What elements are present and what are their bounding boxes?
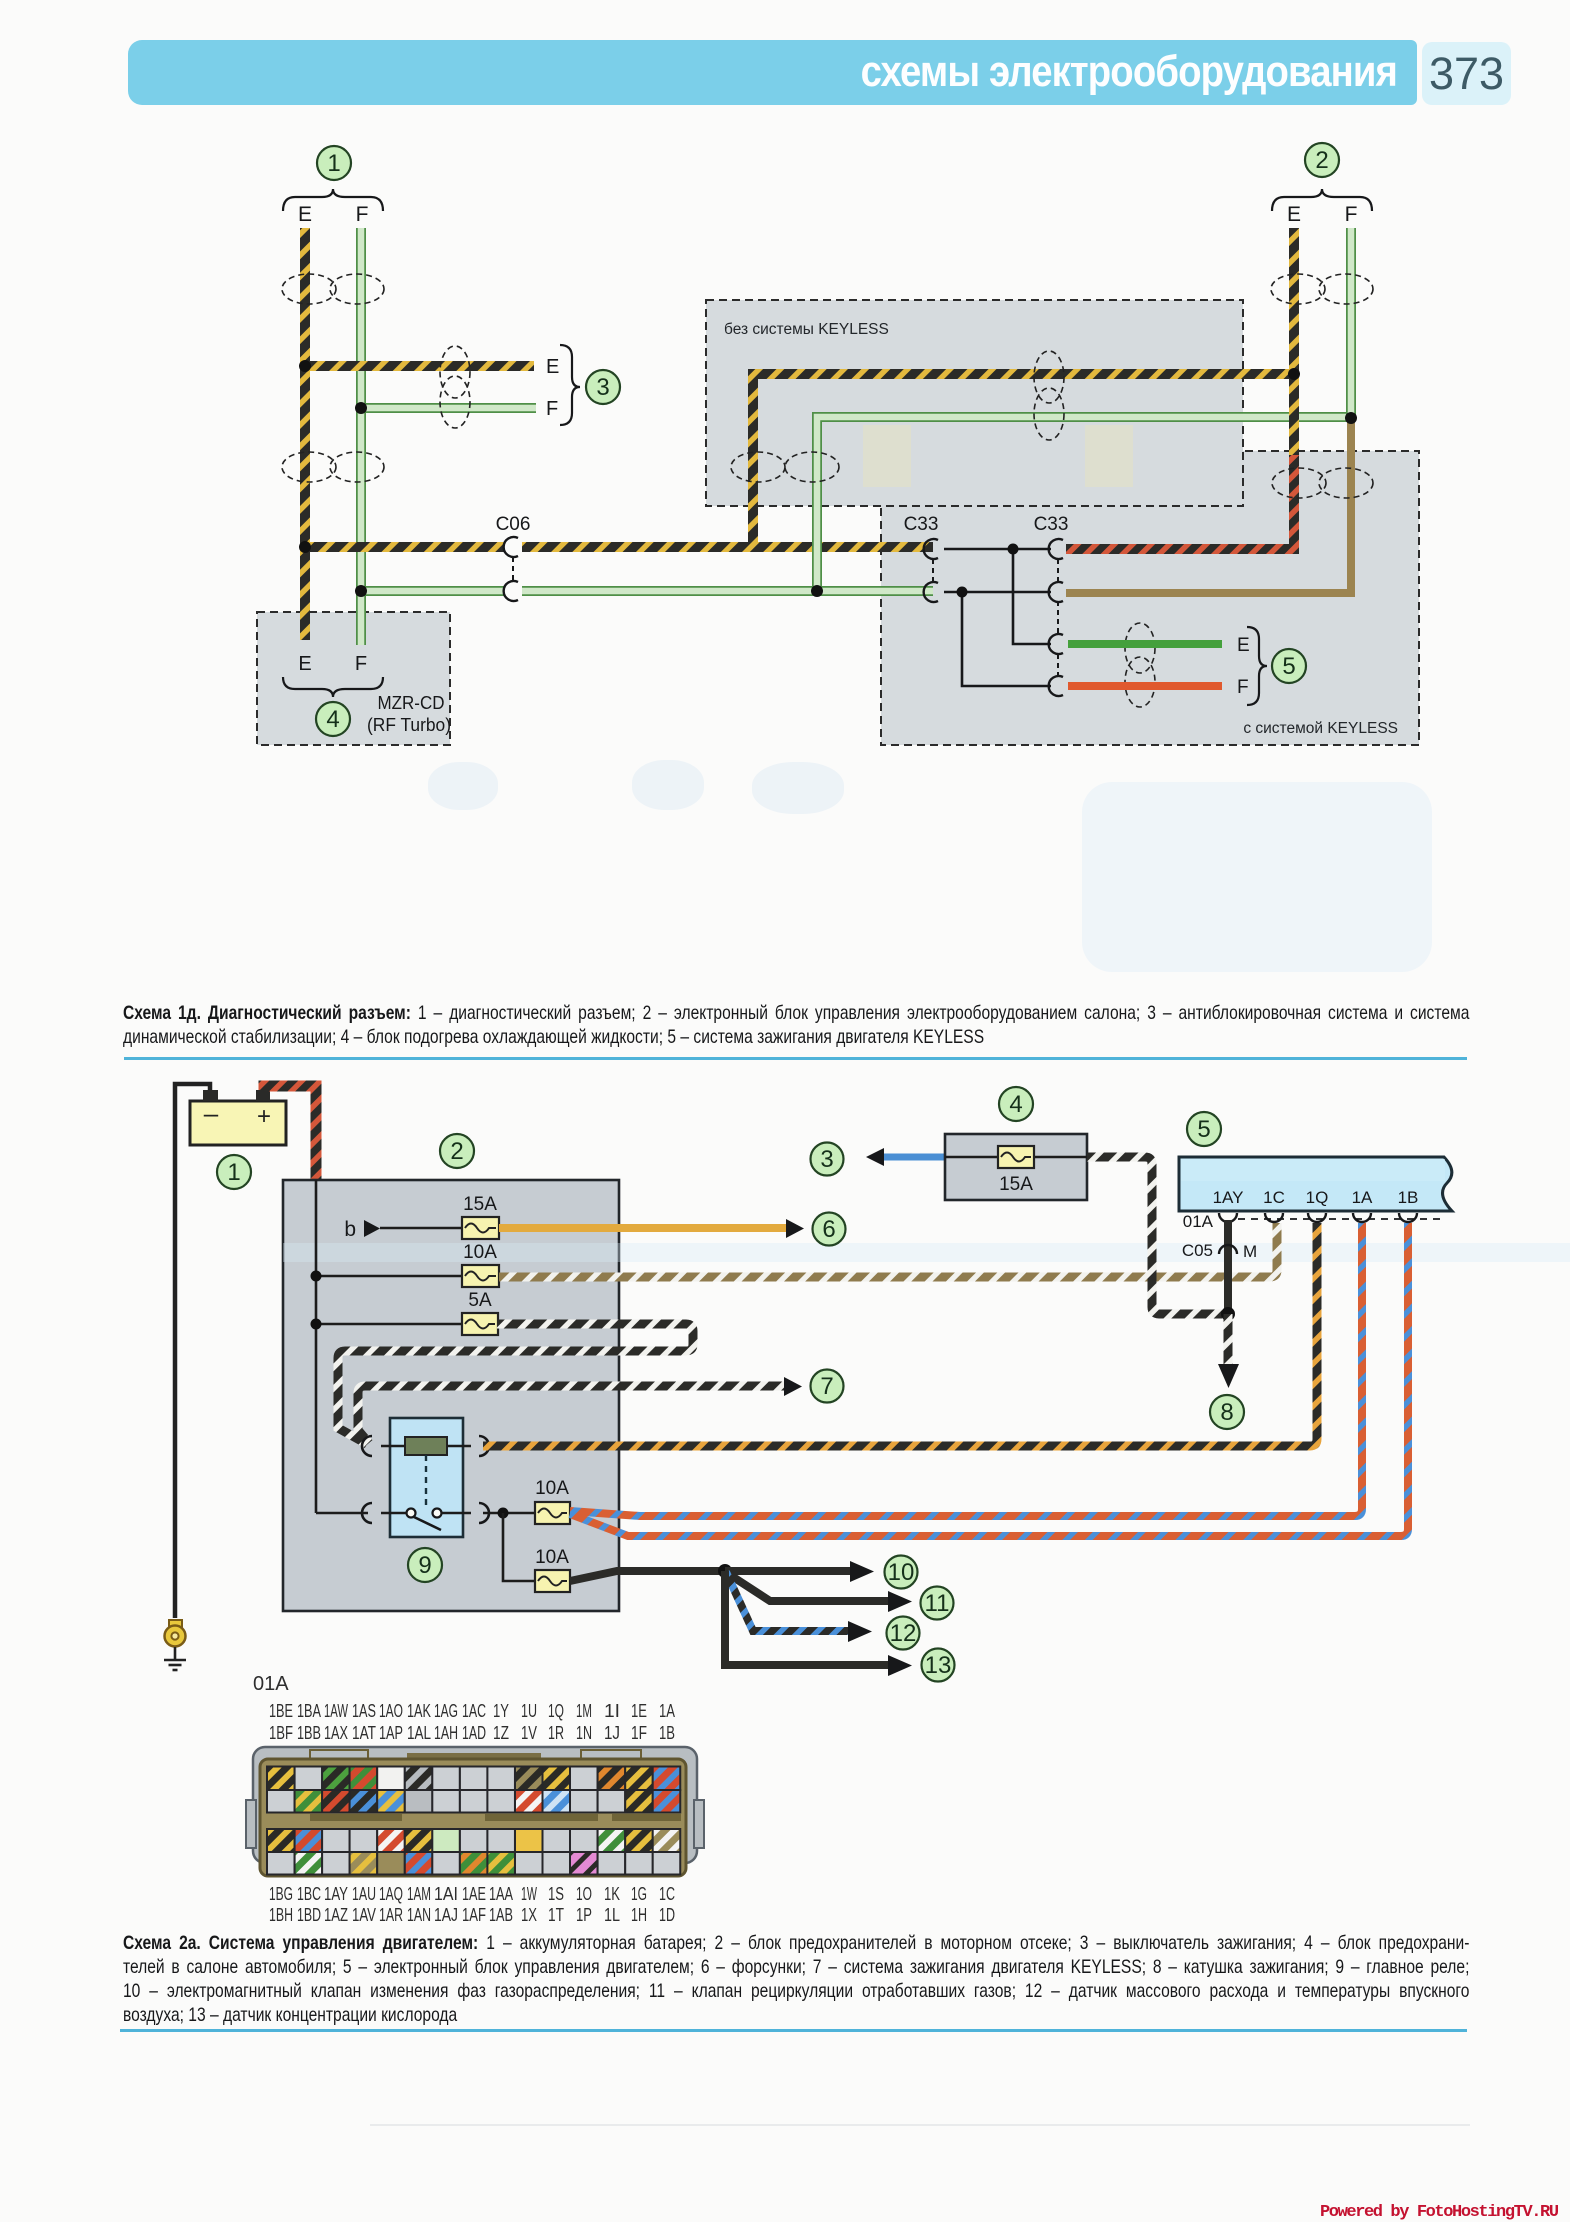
- connector C33 left: [904, 514, 939, 602]
- ignition switch arrow (3): [866, 1148, 945, 1166]
- twisted pair symbol on branch 3: [440, 346, 470, 428]
- wire black/white relay coil feed: [338, 1324, 693, 1444]
- fuse F1 15A: [462, 1194, 499, 1239]
- ECU block (5): [1179, 1157, 1452, 1211]
- node dot F2 feed: [311, 1271, 322, 1282]
- svg-text:01A: 01A: [253, 1673, 289, 1695]
- svg-text:1AE: 1AE: [462, 1884, 486, 1904]
- connector labels row B: [269, 1723, 675, 1743]
- node dot E2: [1288, 368, 1300, 380]
- callout 10: [885, 1556, 918, 1589]
- svg-text:E: E: [298, 653, 311, 675]
- bus bar inside fuse box: [315, 1180, 318, 1513]
- callout 3: [811, 1143, 844, 1176]
- svg-text:1AA: 1AA: [489, 1884, 513, 1904]
- svg-text:F: F: [1237, 677, 1249, 698]
- ghost bleedthrough blobs: [428, 762, 498, 810]
- svg-text:1I: 1I: [604, 1701, 620, 1721]
- svg-text:1J: 1J: [604, 1723, 620, 1743]
- connector C05: [1182, 1241, 1257, 1261]
- relay coil: [381, 1437, 471, 1455]
- wire brown to C33: [1066, 418, 1351, 593]
- svg-text:1AQ: 1AQ: [379, 1884, 403, 1904]
- svg-text:M: M: [1243, 1242, 1257, 1261]
- svg-text:2: 2: [1315, 147, 1328, 174]
- svg-text:E: E: [1287, 203, 1301, 226]
- callout 1: [317, 146, 351, 180]
- relay switch contacts: [381, 1509, 471, 1531]
- svg-text:2: 2: [450, 1138, 463, 1165]
- wire jumper C33 pin2: [944, 591, 1051, 594]
- callout 6: [813, 1213, 846, 1246]
- svg-text:1AP: 1AP: [379, 1723, 403, 1743]
- svg-text:1: 1: [227, 1159, 240, 1186]
- svg-text:1AH: 1AH: [434, 1723, 458, 1743]
- svg-text:1A: 1A: [659, 1701, 675, 1721]
- box: без системы KEYLESS: [706, 300, 1243, 506]
- twisted pair symbol TL upper: [282, 274, 384, 304]
- svg-text:1M: 1M: [576, 1701, 592, 1721]
- ground symbol: [164, 1647, 186, 1670]
- relay switch pin left: [362, 1503, 372, 1523]
- wire black/white ignition to coil node: [1087, 1157, 1222, 1314]
- svg-text:1F: 1F: [631, 1723, 647, 1743]
- box: с системой KEYLESS (2): [881, 451, 1419, 745]
- connector C33 right: [1034, 514, 1069, 696]
- svg-text:1BG: 1BG: [269, 1884, 293, 1904]
- callout 1 battery: [217, 1155, 251, 1189]
- ECU pin sockets: [1219, 1213, 1417, 1222]
- svg-text:1AW: 1AW: [324, 1701, 348, 1721]
- svg-text:1: 1: [327, 150, 340, 177]
- svg-text:1L: 1L: [604, 1905, 620, 1925]
- caption schema 2a: [123, 1931, 1469, 2027]
- relay coil pin right: [479, 1436, 489, 1456]
- node dot green riser: [811, 585, 823, 597]
- wire battery plus red/black: [264, 1086, 316, 1182]
- svg-text:3: 3: [820, 1146, 833, 1173]
- svg-text:1P: 1P: [576, 1905, 592, 1925]
- node dot sensor trunk: [718, 1564, 732, 1578]
- svg-text:1BF: 1BF: [269, 1723, 293, 1743]
- svg-text:15A: 15A: [463, 1194, 497, 1215]
- svg-text:1C: 1C: [659, 1884, 675, 1904]
- wire red/blue to 1B: [570, 1223, 1408, 1536]
- svg-text:1W: 1W: [521, 1884, 537, 1904]
- connector pin cells: [267, 1767, 680, 1875]
- separator line 1: [124, 1057, 1467, 1060]
- wire jumper to pin3: [1013, 549, 1051, 644]
- brace connector 2: [1272, 189, 1372, 211]
- connector labels row A: [269, 1701, 675, 1721]
- header bar: [128, 40, 1417, 105]
- fuse box engine bay (2): [283, 1180, 619, 1611]
- svg-text:E: E: [1237, 635, 1250, 656]
- svg-text:1Q: 1Q: [1306, 1188, 1329, 1207]
- svg-text:1AB: 1AB: [489, 1905, 513, 1925]
- wire feed to F3: [316, 1323, 462, 1326]
- svg-text:4: 4: [326, 706, 339, 733]
- svg-text:1V: 1V: [521, 1723, 537, 1743]
- svg-text:5A: 5A: [468, 1290, 492, 1311]
- box: MZR-CD (RF Turbo): [257, 612, 451, 745]
- brace connector 1: [283, 189, 383, 211]
- twisted pair symbol TL lower: [282, 452, 384, 482]
- connector 01A shell: [246, 1747, 704, 1863]
- wire pale green riser in box1: [817, 417, 1351, 591]
- node dot jumper2: [957, 587, 968, 598]
- wire black/yellow horizontal to C06/C33: [305, 542, 933, 552]
- twisted pair symbol box1 risers: [731, 452, 839, 482]
- svg-text:5: 5: [1282, 653, 1295, 680]
- svg-text:1E: 1E: [631, 1701, 647, 1721]
- svg-text:без системы KEYLESS: без системы KEYLESS: [724, 321, 889, 338]
- svg-text:1S: 1S: [548, 1884, 564, 1904]
- wire jumper to pin4: [962, 592, 1051, 686]
- svg-text:F: F: [355, 653, 367, 675]
- header title: [293, 40, 1397, 105]
- svg-text:1AI: 1AI: [434, 1884, 458, 1904]
- svg-text:10A: 10A: [535, 1547, 569, 1568]
- svg-text:1AC: 1AC: [462, 1701, 486, 1721]
- svg-text:1C: 1C: [1263, 1188, 1285, 1207]
- twisted pair symbol right risers: [1272, 468, 1373, 498]
- svg-text:1AZ: 1AZ: [324, 1905, 348, 1925]
- svg-text:1BC: 1BC: [297, 1884, 321, 1904]
- brace 5: [1247, 627, 1267, 705]
- wire jumper C33 pin1: [944, 548, 1051, 551]
- fuse F5 10A: [535, 1547, 570, 1592]
- wire switch to fuses: [483, 1512, 535, 1515]
- svg-text:1BH: 1BH: [269, 1905, 293, 1925]
- wire F branch to ABS (3): [361, 403, 536, 413]
- svg-text:1O: 1O: [576, 1884, 592, 1904]
- ground terminal eyelet: [165, 1620, 186, 1647]
- node dot ignition coil junction: [1221, 1307, 1235, 1321]
- relay coil pin left: [362, 1436, 372, 1456]
- svg-text:1Y: 1Y: [493, 1701, 509, 1721]
- node dot F3 feed: [311, 1319, 322, 1330]
- svg-text:1AU: 1AU: [352, 1884, 376, 1904]
- node dot jumper1: [1008, 544, 1019, 555]
- connector labels row D: [269, 1905, 675, 1925]
- ghost relay marks inside box: [863, 425, 1133, 487]
- node dot F1-branch: [355, 402, 367, 414]
- svg-text:E: E: [298, 203, 312, 226]
- relay actuator dashed link: [425, 1455, 427, 1506]
- svg-text:F: F: [546, 398, 558, 420]
- cabin fuse block (4): [945, 1134, 1087, 1200]
- caption schema 1d: [123, 1002, 1469, 1049]
- svg-text:1AN: 1AN: [407, 1905, 431, 1925]
- callout 5 ecu: [1187, 1112, 1221, 1146]
- svg-text:1AT: 1AT: [352, 1723, 376, 1743]
- svg-text:C06: C06: [496, 514, 531, 535]
- relay K main: [390, 1418, 463, 1537]
- svg-text:1Q: 1Q: [548, 1701, 564, 1721]
- svg-text:1H: 1H: [631, 1905, 647, 1925]
- wire feed to F2: [316, 1275, 462, 1278]
- svg-text:1BB: 1BB: [297, 1723, 321, 1743]
- node dot F2: [1345, 412, 1357, 424]
- svg-text:1AO: 1AO: [379, 1701, 403, 1721]
- svg-text:1N: 1N: [576, 1723, 592, 1743]
- svg-text:1BA: 1BA: [297, 1701, 321, 1721]
- node dot switch out: [498, 1508, 509, 1519]
- svg-text:b: b: [344, 1218, 356, 1241]
- svg-text:MZR-CD: MZR-CD: [378, 693, 445, 713]
- svg-text:E: E: [546, 356, 559, 378]
- svg-text:F: F: [356, 203, 369, 226]
- svg-text:1Z: 1Z: [493, 1723, 509, 1743]
- node dot E1-branch: [299, 360, 311, 372]
- wire black/white KEYLESS ignition (7): [358, 1377, 802, 1443]
- svg-text:11: 11: [925, 1590, 950, 1617]
- callout 9: [408, 1548, 442, 1582]
- svg-text:1X: 1X: [521, 1905, 537, 1925]
- callout 2 fuse box: [440, 1134, 474, 1168]
- wire orange keyless F: [1068, 682, 1222, 690]
- fuse F3 5A: [462, 1290, 498, 1335]
- svg-text:1AF: 1AF: [462, 1905, 486, 1925]
- ECU socket dashed line: [1238, 1218, 1443, 1220]
- page number box: [1422, 42, 1511, 105]
- watermark: [1320, 2203, 1565, 2222]
- svg-text:1B: 1B: [659, 1723, 675, 1743]
- connector top tabs: [310, 1750, 641, 1765]
- svg-text:(RF Turbo): (RF Turbo): [367, 715, 451, 735]
- callout 11: [921, 1587, 954, 1620]
- svg-text:1B: 1B: [1398, 1188, 1419, 1207]
- svg-text:4: 4: [1009, 1091, 1022, 1118]
- fuse F6 15A: [998, 1146, 1034, 1195]
- svg-text:10A: 10A: [463, 1242, 497, 1263]
- connector C06: [496, 514, 531, 601]
- svg-text:1AL: 1AL: [407, 1723, 431, 1743]
- wire pale green horizontal to C06/C33: [361, 586, 933, 596]
- wire red/black to C33: [1066, 455, 1294, 549]
- wire red/blue to 1A: [570, 1223, 1362, 1516]
- svg-text:1AD: 1AD: [462, 1723, 486, 1743]
- wire green keyless E: [1068, 640, 1222, 648]
- connector khaki frame: [260, 1759, 686, 1876]
- svg-text:1AM: 1AM: [407, 1884, 431, 1904]
- connector middle lock bars: [310, 1814, 681, 1821]
- wire switch feed: [316, 1512, 368, 1515]
- svg-text:10: 10: [888, 1559, 915, 1586]
- svg-text:1A: 1A: [1352, 1188, 1373, 1207]
- svg-text:1AY: 1AY: [324, 1884, 348, 1904]
- svg-text:13: 13: [925, 1652, 952, 1679]
- svg-text:8: 8: [1220, 1399, 1233, 1426]
- svg-text:C33: C33: [904, 514, 939, 535]
- node dot F1-C06: [355, 585, 367, 597]
- separator line 2: [120, 2029, 1467, 2032]
- battery GB: [190, 1090, 286, 1145]
- node b terminal: [344, 1218, 462, 1241]
- connector labels row C: [269, 1884, 675, 1904]
- callout 13: [922, 1649, 955, 1682]
- svg-text:1BE: 1BE: [269, 1701, 293, 1721]
- svg-text:1R: 1R: [548, 1723, 564, 1743]
- brace 3: [560, 345, 580, 425]
- svg-text:9: 9: [418, 1552, 431, 1579]
- svg-text:1AX: 1AX: [324, 1723, 348, 1743]
- svg-text:1AR: 1AR: [379, 1905, 403, 1925]
- svg-text:с системой KEYLESS: с системой KEYLESS: [1243, 720, 1398, 737]
- wire black/yellow loop in box1: [753, 374, 1294, 547]
- scan streak band: [283, 1243, 1570, 1262]
- wire trunk to sensors: [570, 1571, 725, 1581]
- svg-text:01A: 01A: [1183, 1212, 1214, 1231]
- wire to fuse F5: [503, 1513, 535, 1581]
- wire black/white to ignition coil (8): [1218, 1314, 1239, 1388]
- svg-text:1K: 1K: [604, 1884, 620, 1904]
- brace 4: [283, 677, 383, 697]
- svg-text:1AY: 1AY: [1213, 1188, 1244, 1207]
- callout 4: [316, 702, 350, 736]
- svg-text:15A: 15A: [999, 1174, 1033, 1195]
- svg-text:F: F: [1345, 203, 1358, 226]
- callout 5: [1272, 649, 1306, 683]
- wire yellow to injectors: [499, 1219, 804, 1238]
- relay switch pin right: [479, 1503, 489, 1523]
- svg-text:1AS: 1AS: [352, 1701, 376, 1721]
- svg-text:1BD: 1BD: [297, 1905, 321, 1925]
- svg-text:3: 3: [596, 374, 609, 401]
- ECU pin labels: [1213, 1188, 1419, 1207]
- wire battery minus to ground: [175, 1084, 210, 1618]
- wire brown/white to 1C: [499, 1223, 1277, 1277]
- callout 7: [811, 1370, 844, 1403]
- twisted pair symbol TR: [1271, 274, 1373, 304]
- callout 4: [999, 1087, 1033, 1121]
- wire E2 black/yellow vertical right: [1289, 228, 1299, 460]
- svg-text:12: 12: [890, 1620, 917, 1647]
- faint scan line: [370, 2124, 1470, 2126]
- callout 8: [1210, 1395, 1244, 1429]
- callout 3: [586, 370, 620, 404]
- node dot E1-C06: [299, 541, 311, 553]
- svg-text:1G: 1G: [631, 1884, 647, 1904]
- wire branch 11: [727, 1573, 912, 1612]
- wire F1 pale green vertical left: [356, 228, 366, 645]
- svg-text:–: –: [204, 1098, 219, 1128]
- twisted pair symbol box1 top wires: [1034, 351, 1064, 440]
- svg-text:6: 6: [822, 1216, 835, 1243]
- fuse F4 10A: [535, 1478, 570, 1524]
- svg-text:C33: C33: [1034, 514, 1069, 535]
- wire E1 black/yellow vertical left: [300, 228, 310, 640]
- wire branch 12 blue/black: [726, 1572, 872, 1642]
- svg-text:+: +: [257, 1103, 271, 1130]
- svg-text:1U: 1U: [521, 1701, 537, 1721]
- wire branch 13: [725, 1571, 912, 1676]
- callout 12: [887, 1617, 920, 1650]
- svg-text:1T: 1T: [548, 1905, 564, 1925]
- svg-text:C05: C05: [1182, 1241, 1213, 1260]
- wire branch 10: [725, 1561, 874, 1582]
- svg-text:1AK: 1AK: [407, 1701, 431, 1721]
- svg-text:1AJ: 1AJ: [434, 1905, 458, 1925]
- wire E branch to ABS (3): [305, 361, 534, 371]
- wire F2 pale green vertical right: [1346, 228, 1356, 418]
- svg-text:1AG: 1AG: [434, 1701, 458, 1721]
- wire 1AY to coil: [1224, 1220, 1232, 1314]
- svg-text:7: 7: [820, 1373, 833, 1400]
- callout 2: [1305, 143, 1339, 177]
- twisted pair symbol keyless E/F: [1125, 623, 1155, 707]
- wire orange/black coil to 1Q: [483, 1223, 1317, 1446]
- svg-text:1AV: 1AV: [352, 1905, 376, 1925]
- svg-text:10A: 10A: [535, 1478, 569, 1499]
- svg-text:5: 5: [1197, 1116, 1210, 1143]
- fuse F2 10A: [462, 1242, 499, 1287]
- svg-text:1D: 1D: [659, 1905, 675, 1925]
